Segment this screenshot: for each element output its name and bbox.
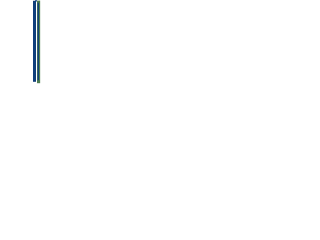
right bar navy core bbox=[38, 3, 39, 81]
right bar green border bbox=[37, 1, 40, 84]
navy tip at top of left bar bbox=[35, 0, 37, 2]
background bbox=[0, 0, 84, 84]
left navy bar bbox=[33, 1, 36, 82]
